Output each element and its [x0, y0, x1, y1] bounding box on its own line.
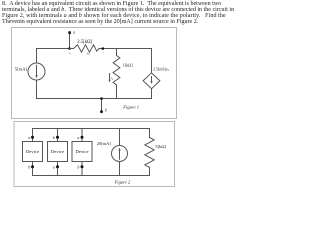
- svg-text:Device: Device: [75, 149, 88, 154]
- wire: Fig1 bottom rail: [37, 98, 152, 100]
- wire: Fig2 source branch lower: [119, 162, 121, 176]
- svg-text:Figure 1: Figure 1: [122, 104, 139, 109]
- svg-text:5[kΩ]: 5[kΩ]: [155, 144, 166, 149]
- device D1 box: [23, 142, 43, 162]
- resistor R3 5[kOhm] vertical: [145, 129, 167, 176]
- dependent current source 2.5[mS]vx diamond: [143, 73, 160, 89]
- junction dot at node a on top wire: [68, 47, 71, 50]
- node a terminal of D2: [53, 165, 59, 170]
- svg-text:b: b: [105, 107, 107, 112]
- device D2 box: [48, 142, 68, 162]
- node a terminal of D3: [77, 135, 83, 140]
- node a terminal of D1: [28, 135, 34, 140]
- wire: Fig2 stub above device D3: [81, 129, 83, 142]
- svg-text:a: a: [73, 29, 75, 34]
- device D3 box: [72, 142, 92, 162]
- wire: Fig2 top rail: [33, 129, 150, 142]
- wire: Fig1 top-left from source up and right to node a junction: [37, 49, 70, 64]
- svg-text:a: a: [28, 135, 30, 140]
- wire: Fig1 left below source: [36, 80, 38, 99]
- node b terminal of D2: [53, 135, 59, 140]
- node b terminal stub: [100, 99, 107, 114]
- wire: Fig1 right branch lower: [151, 89, 153, 99]
- svg-text:b: b: [53, 135, 55, 140]
- current arrow ix beside R2: [109, 74, 114, 83]
- node a terminal stub: [68, 29, 75, 48]
- wire: Fig2 stub below device D2: [57, 162, 59, 176]
- junction dot at node b on bottom wire: [100, 97, 103, 100]
- wire: Fig2 stub below device D3: [81, 162, 83, 176]
- wire: Fig2 bottom rail: [33, 162, 150, 176]
- svg-text:a: a: [77, 135, 79, 140]
- svg-text:b: b: [28, 165, 30, 170]
- resistor R2 1[kOhm] vertical: [113, 49, 133, 99]
- svg-text:2.5[kΩ]: 2.5[kΩ]: [77, 40, 92, 45]
- wire: Fig2 stub above device D2: [57, 129, 59, 142]
- current source I2 20[mA]: [112, 146, 128, 162]
- label + vx - below R1: [69, 51, 104, 56]
- wire: Fig2 source branch upper: [119, 129, 121, 146]
- svg-text:20[mA]: 20[mA]: [97, 141, 111, 146]
- svg-text:b: b: [77, 165, 79, 170]
- svg-text:5[mA]: 5[mA]: [15, 66, 28, 71]
- svg-text:Figure 2: Figure 2: [114, 180, 131, 185]
- resistor R1 2.5[kOhm] horizontal: [70, 45, 100, 52]
- svg-text:Device: Device: [51, 149, 64, 154]
- svg-text:ix: ix: [111, 76, 114, 81]
- svg-text:2.5[mS]vx: 2.5[mS]vx: [153, 68, 169, 73]
- svg-text:1[kΩ]: 1[kΩ]: [123, 63, 134, 68]
- wire: Fig1 right branch upper: [151, 49, 153, 73]
- junction dot right of R1: [102, 47, 105, 50]
- node b terminal of D3: [77, 165, 83, 170]
- wire: Fig1 top between resistor R1 and right branch: [99, 48, 152, 50]
- svg-text:−: −: [102, 51, 104, 55]
- node b terminal of D1: [28, 165, 34, 170]
- svg-text:a: a: [53, 165, 55, 170]
- svg-text:Device: Device: [26, 149, 39, 154]
- current source I1 5[mA]: [28, 63, 45, 80]
- svg-text:+: +: [69, 51, 71, 55]
